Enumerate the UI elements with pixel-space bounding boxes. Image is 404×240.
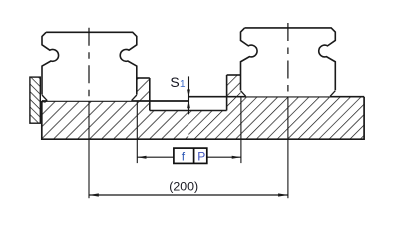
f/P dim line left segment with arrow	[137, 156, 174, 158]
f/P box	[174, 148, 207, 163]
slot left wall	[149, 78, 151, 111]
svg-text:P: P	[197, 149, 205, 163]
left rail bottom chamfer left	[42, 95, 47, 101]
right rail bottom chamfer right	[330, 91, 335, 97]
f/P dimension extension line left	[136, 101, 138, 163]
svg-text:1: 1	[180, 79, 186, 90]
dimension S1 vertical line	[188, 76, 190, 114]
left rail bottom chamfer right	[132, 95, 137, 101]
slot bottom line	[150, 110, 227, 112]
svg-text:S: S	[170, 74, 179, 90]
S1 arrow up (tip on lower left surface)	[187, 101, 190, 108]
(200) dimension line	[89, 194, 288, 196]
f/P dimension extension line right	[240, 97, 242, 163]
svg-text:(200): (200)	[169, 179, 198, 193]
centerline right rail (dash-dot)	[287, 23, 289, 97]
(200) arrow left	[89, 193, 99, 196]
left rail R1 (profile rail cross-section)	[42, 32, 137, 100]
bed ground line left (top surface, lower)	[42, 100, 189, 102]
centerline left rail (dash-dot)	[88, 28, 90, 101]
bed outline	[42, 97, 364, 140]
left clamp strip (opposite hatch)	[30, 77, 40, 123]
slot right wall	[226, 75, 228, 111]
bed left plate hatched body (incl. left shoulder lip)	[42, 78, 189, 139]
right rail bottom chamfer left	[241, 91, 246, 97]
bed ground line right (top surface, higher)	[188, 96, 364, 98]
bed right plate hatched body (incl. right shoulder lip)	[188, 75, 364, 139]
right lip top edge	[227, 74, 241, 76]
S1 arrow down (tip on upper right surface)	[187, 90, 190, 97]
(200) arrow right	[278, 193, 288, 196]
left lip top edge	[137, 77, 150, 79]
right rail R2 (profile rail cross-section, sits 4.3px higher)	[241, 28, 336, 96]
extension line left for (200)	[88, 101, 90, 198]
extension line right for (200)	[287, 97, 289, 199]
f/P dim line right segment with arrow	[207, 156, 241, 158]
relief arc at bed shoulder left of rail	[43, 101, 47, 102]
